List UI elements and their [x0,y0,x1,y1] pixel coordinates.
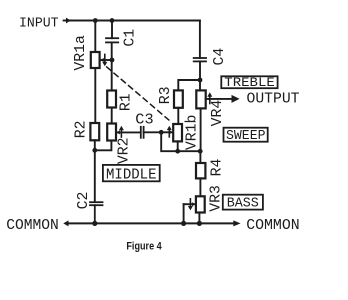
wire VR1b bottom lead [177,141,179,151]
wire C1 to R1 [111,42,113,90]
svg-text:VR4: VR4 [210,100,226,127]
node junction VR1b bottom [175,149,180,154]
wire C4 top lead [199,21,201,59]
svg-text:OUTPUT: OUTPUT [247,91,300,107]
INPUT label [19,16,59,32]
common right arrow [233,220,240,226]
wire VR3 wiper to rail [183,204,185,223]
VR1b label [184,115,200,151]
potentiometer VR1a [91,52,100,68]
svg-text:VR2: VR2 [117,137,133,164]
BASS box [223,195,263,212]
capacitor C3 [141,127,144,138]
VR2 label [117,137,133,164]
svg-text:R2: R2 [74,121,90,139]
VR3 wiper [184,199,196,211]
svg-text:TREBLE: TREBLE [224,76,275,90]
VR1b wiper [161,126,173,137]
wire VR4 bottom lead [200,108,202,151]
node junction C2 bottom [92,221,97,226]
C1 label [122,29,138,47]
output arrow [232,95,240,103]
potentiometer VR3 [196,196,205,212]
resistor R4 [196,163,205,178]
svg-text:C1: C1 [122,29,138,47]
node junction VR3 wiper rail [181,221,186,226]
wire node down to bottom wire [161,132,200,151]
R3 label [158,86,174,104]
node junction right column bottom [198,149,203,154]
potentiometer VR2 [107,124,116,141]
input arrow [64,18,71,24]
R1 label [119,93,135,111]
node VR1a wiper junction [110,58,115,63]
svg-text:R3: R3 [158,86,174,104]
wire bottom node to R4 [199,151,201,163]
wire R3 top horizontal [178,80,200,90]
svg-text:SWEEP: SWEEP [226,129,266,144]
wire R4 to VR3 [199,178,201,196]
TREBLE box [221,76,277,90]
svg-text:BASS: BASS [227,197,259,212]
capacitor C2 [90,202,103,223]
svg-text:R4: R4 [209,159,225,177]
VR4 label [210,100,226,127]
wire R1 to VR2 [111,108,113,124]
node junction R2/VR2 [92,148,97,153]
capacitor C4 [194,58,206,61]
wire C1 top lead [111,21,113,39]
R2 label [74,121,90,139]
wire VR1a top lead [94,21,96,53]
common left arrow [63,220,68,226]
wire R2 to C2 [94,140,96,202]
C4 label [212,48,228,66]
VR4 wiper [207,92,232,103]
resistor R1 [107,91,116,108]
svg-text:VR1a: VR1a [73,35,89,71]
wire C3 to node [144,131,162,133]
wire top rail [66,20,200,22]
VR1a wiper [100,54,112,66]
svg-text:C2: C2 [76,192,92,210]
wire C4 to VR4 [199,61,201,90]
svg-text:VR1b: VR1b [184,115,200,151]
resistor R2 [90,123,99,140]
svg-text:COMMON: COMMON [6,216,59,234]
svg-text:Figure 4: Figure 4 [126,240,161,252]
node junction top C1 [110,18,115,23]
svg-text:R1: R1 [119,93,135,111]
wire bottom rail [67,222,234,224]
dashed gang line VR1a-VR1b [107,67,169,120]
Figure 4 caption [126,240,161,252]
svg-text:INPUT: INPUT [19,16,59,32]
node junction C3/VR1b wiper [159,130,164,135]
SWEEP box [224,128,268,144]
wire VR3 bottom lead [198,213,200,224]
potentiometer VR4 [196,90,205,108]
wire VR1a to R2 [94,68,96,123]
R4 label [209,159,225,177]
C3 label [135,113,153,129]
svg-text:COMMON: COMMON [246,216,300,234]
VR1a label [73,35,89,71]
C2 label [76,192,92,210]
VR3 label [209,185,225,212]
svg-text:C3: C3 [135,113,153,129]
node junction top VR1a [93,18,98,23]
svg-text:MIDDLE: MIDDLE [106,166,157,183]
OUTPUT label [247,91,300,107]
node junction VR3 bottom rail [197,221,202,226]
potentiometer VR1b [173,124,182,141]
MIDDLE box [103,165,160,183]
COMMON right label [246,216,300,234]
VR2 wiper [116,126,140,137]
capacitor C1 [106,38,118,42]
wire R3 to VR1b [177,108,179,124]
COMMON left label [6,216,59,234]
resistor R3 [174,90,183,107]
svg-text:C4: C4 [212,48,228,66]
node junction C4 bottom [198,78,203,83]
wire VR2 bottom jog [95,141,112,151]
